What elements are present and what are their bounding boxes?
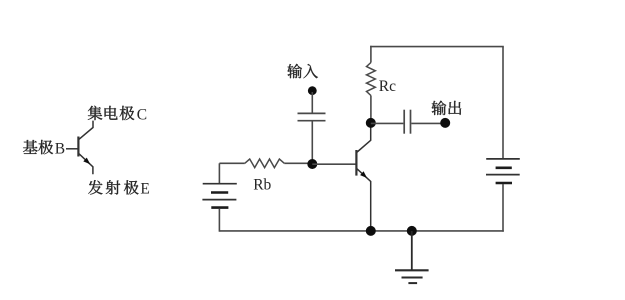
battery B2 plate short	[496, 167, 512, 170]
wire Rc top lead	[370, 46, 372, 63]
label 出 (output char 2)	[448, 101, 461, 115]
wire top rail	[370, 46, 504, 48]
battery B1 plate short	[211, 191, 228, 194]
label 极 (emitter label char 3)	[124, 180, 139, 194]
svg-text:Rc: Rc	[379, 78, 396, 95]
wire input dot to C1	[311, 92, 313, 113]
battery B2 plate long top	[486, 158, 520, 160]
battery B1 plate long bottom	[202, 199, 236, 201]
capacitor C1 top plate	[298, 112, 326, 114]
svg-text:B: B	[55, 140, 65, 157]
svg-text:E: E	[140, 181, 149, 198]
battery B1 plate long top	[203, 183, 237, 185]
label 电 (collector label char 2)	[105, 106, 118, 120]
label 输 (output char 1)	[432, 101, 447, 115]
label 基 (base label char 1)	[23, 140, 38, 154]
svg-text:Rb: Rb	[253, 177, 271, 194]
node base junction dot	[307, 159, 317, 169]
label 输 (input char 1)	[287, 64, 302, 78]
wire Rc bottom lead	[370, 96, 372, 123]
wire ground lead	[411, 231, 413, 270]
transistor Q2 emitter lead	[357, 168, 371, 231]
ground symbol line 1	[395, 269, 429, 271]
transistor Q1 base bar	[77, 137, 79, 157]
capacitor C2 right plate	[410, 110, 412, 134]
node output terminal dot	[440, 118, 450, 128]
transistor Q1 base lead wire	[66, 148, 78, 150]
node emitter junction dot	[366, 226, 376, 236]
transistor Q1 emitter arrow	[83, 158, 90, 165]
wire battery B2 bottom lead	[502, 184, 504, 232]
battery B2 plate short bottom	[496, 182, 512, 185]
transistor Q1 emitter lead	[78, 153, 93, 174]
label 极 (base label char 2)	[38, 140, 53, 154]
capacitor C2 left plate	[403, 110, 405, 134]
wire battery B1 bottom lead	[218, 209, 220, 232]
node ground junction dot	[407, 226, 417, 236]
battery B1 plate short bottom	[211, 206, 228, 209]
transistor Q2 base bar	[355, 150, 357, 176]
label 极 (collector label char 3)	[120, 106, 135, 120]
ground symbol line 2	[402, 277, 423, 279]
label 入 (input char 2)	[303, 64, 318, 78]
resistor Rc	[367, 63, 376, 96]
transistor Q1 collector lead	[78, 121, 93, 140]
battery B2 plate long bottom	[486, 174, 520, 176]
resistor Rb	[245, 159, 284, 168]
svg-text:C: C	[137, 106, 147, 123]
wire C2 to output dot	[411, 122, 445, 124]
label 集 (collector label char 1)	[88, 106, 103, 120]
label 射 (emitter label char 2)	[106, 180, 121, 194]
wire bottom rail	[219, 230, 503, 232]
wire battery B2 top lead	[502, 47, 504, 159]
capacitor C1 bottom plate	[298, 120, 326, 122]
transistor Q2 collector lead	[357, 123, 371, 153]
wire C1 to base node	[311, 122, 313, 165]
label 发 (emitter label char 1)	[88, 180, 102, 194]
wire battery B1 top lead	[218, 163, 220, 183]
node collector junction dot	[366, 118, 376, 128]
wire base node to Q2 base	[312, 163, 355, 165]
wire collector node to C2	[371, 122, 404, 124]
ground symbol line 3	[408, 282, 417, 284]
wire Rb to base node	[284, 162, 312, 164]
wire battery B1 top to Rb	[219, 162, 244, 164]
node input terminal dot	[308, 86, 317, 95]
transistor Q2 emitter arrow	[360, 171, 367, 178]
